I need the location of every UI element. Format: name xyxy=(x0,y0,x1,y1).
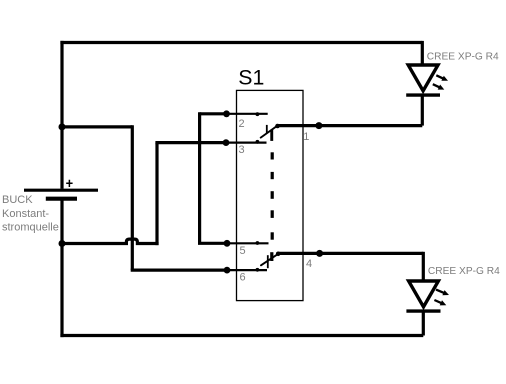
wire left vertical upper (battery + up to top rail) xyxy=(60,41,63,189)
switch pole B lever tick xyxy=(267,255,269,268)
pin 1 terminal dot xyxy=(315,122,322,129)
LED D2 light arrow upper xyxy=(436,290,445,294)
wire pin 4 to LED2 anode xyxy=(278,252,423,255)
pin 6 stub inside switch xyxy=(227,269,267,271)
node junction on battery + branch xyxy=(59,123,66,130)
node junction on battery - branch xyxy=(59,240,66,247)
switch pole B pivot dot xyxy=(276,252,281,257)
switch pole B actuator bar xyxy=(270,252,273,261)
switch pole A lever tick xyxy=(266,125,268,133)
LED D1 triangle xyxy=(408,65,438,91)
svg-text:S1: S1 xyxy=(238,66,264,90)
pin 3 terminal dot xyxy=(223,139,230,146)
switch pole A actuator bar xyxy=(270,130,273,141)
svg-text:BUCK: BUCK xyxy=(2,194,33,206)
wire horizontal to switch pin 3 xyxy=(155,141,226,144)
wire pin 1 to LED1 cathode xyxy=(278,124,423,127)
pin 5 terminal dot xyxy=(224,240,231,247)
LED D2 triangle xyxy=(409,281,439,307)
pin 6 contact dot xyxy=(256,268,260,272)
wire switch pin 2 leftward xyxy=(200,112,227,115)
LED D2 light arrow lower xyxy=(434,300,442,303)
LED D2 cathode bar xyxy=(406,309,440,312)
switch pole A lever (1 to 3) xyxy=(261,126,278,138)
switch pole B lever (4 to 6) xyxy=(261,254,278,265)
wire vertical x132 down to pin6 level xyxy=(131,125,134,270)
pin 5 stub inside switch xyxy=(227,242,269,244)
wire LED1 cathode down to pin1 wire xyxy=(421,95,424,126)
svg-text:CREE XP-G R4: CREE XP-G R4 xyxy=(427,52,499,63)
svg-text:Konstant-: Konstant- xyxy=(2,208,49,220)
wire LED2 cathode down to bottom rail xyxy=(422,311,425,335)
wire vertical x157 up to pin3 level xyxy=(155,143,158,246)
LED D1 cathode bar xyxy=(406,93,440,96)
wire top rail from battery + to LED1 anode xyxy=(60,41,422,44)
wire LED2 anode drop from pin4 wire xyxy=(422,252,425,282)
svg-text:3: 3 xyxy=(239,144,245,156)
pin 2 stub inside switch xyxy=(227,113,268,115)
pin 6 terminal dot xyxy=(224,267,231,274)
wire battery- toward pin3, with hop over x132 vertical xyxy=(62,239,159,245)
svg-text:5: 5 xyxy=(240,245,246,257)
battery V1 BUCK Konstantstromquelle : long positive plate xyxy=(24,189,98,192)
switch S1 body box xyxy=(237,90,304,300)
battery V1 short negative plate xyxy=(46,197,77,201)
svg-text:4: 4 xyxy=(306,258,312,270)
pin 3 contact dot xyxy=(256,140,260,144)
svg-text:CREE XP-G R4: CREE XP-G R4 xyxy=(428,266,500,277)
switch mechanical link dashed xyxy=(271,152,274,239)
pin 2 terminal dot xyxy=(223,110,230,117)
wire horizontal to switch pin 6 xyxy=(131,269,227,272)
battery plus sign xyxy=(66,180,72,187)
pin 3 stub inside switch xyxy=(226,142,267,144)
wire horizontal to switch pin 5 xyxy=(198,242,227,245)
pin 5 contact dot xyxy=(256,241,260,245)
svg-text:2: 2 xyxy=(239,118,245,130)
svg-text:1: 1 xyxy=(303,131,309,143)
LED D1 light arrow lower xyxy=(433,84,440,87)
wire bottom rail xyxy=(60,334,423,337)
pin 2 contact dot xyxy=(256,112,260,116)
switch pole A pivot dot xyxy=(275,124,280,129)
wire left vertical lower (battery - down to bottom rail) xyxy=(60,199,63,337)
svg-text:6: 6 xyxy=(240,272,246,284)
wire branch battery+ to x132 xyxy=(62,125,132,128)
svg-text:stromquelle: stromquelle xyxy=(2,222,59,234)
wire LED1 anode drop from top rail xyxy=(421,41,424,66)
LED D1 light arrow upper xyxy=(436,75,443,79)
pin 4 terminal dot xyxy=(316,250,323,257)
wire vertical linking pin2 to pin5 xyxy=(198,112,201,243)
